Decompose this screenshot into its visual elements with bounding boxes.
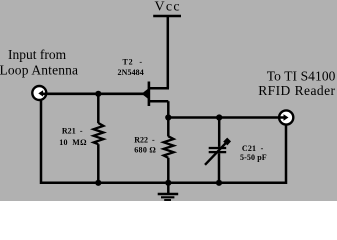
svg-text:5-50 pF: 5-50 pF [240, 153, 267, 162]
svg-text:10 MΩ: 10 MΩ [59, 138, 87, 147]
svg-text:Input from: Input from [8, 47, 67, 62]
svg-text:RFID Reader: RFID Reader [258, 83, 335, 98]
svg-text:Vcc: Vcc [155, 0, 181, 14]
svg-text:680 Ω: 680 Ω [134, 145, 156, 154]
svg-text:C21 -: C21 - [242, 144, 264, 153]
svg-text:Loop Antenna: Loop Antenna [0, 63, 78, 78]
svg-text:T2 -: T2 - [122, 57, 143, 66]
svg-text:R22 -: R22 - [134, 135, 155, 144]
svg-text:To TI S4100: To TI S4100 [267, 68, 336, 83]
svg-text:R21 -: R21 - [62, 126, 83, 135]
svg-text:2N5484: 2N5484 [118, 68, 144, 77]
